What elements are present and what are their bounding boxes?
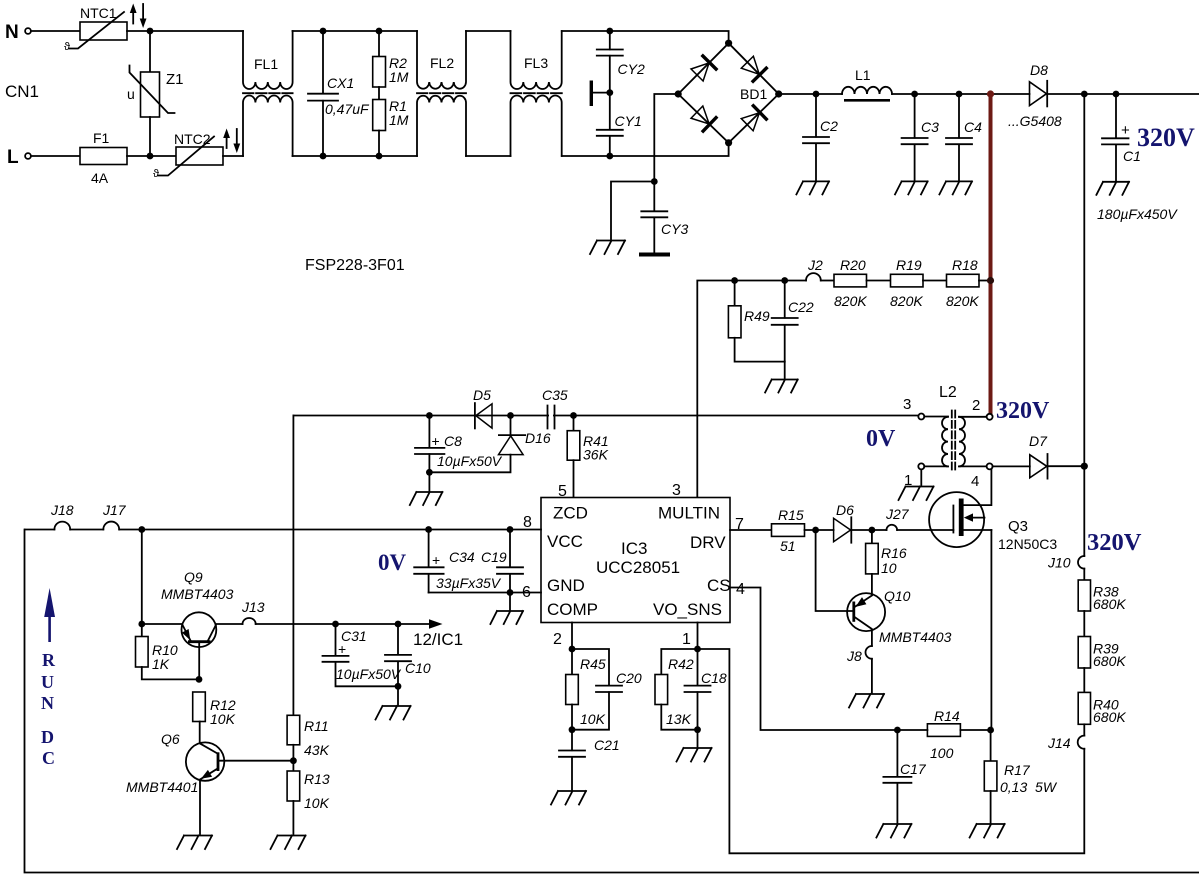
svg-text:C21: C21: [594, 737, 620, 753]
node CX1 top: [320, 28, 327, 35]
svg-text:CY2: CY2: [618, 61, 645, 77]
capacitor C19: [481, 530, 523, 593]
wire C10 bottom to ground: [397, 686, 399, 704]
jumper J14: [1078, 736, 1085, 749]
svg-text:FL3: FL3: [524, 55, 548, 71]
resistor R15 51: [772, 507, 834, 554]
resistor R2 1M: [373, 31, 409, 87]
wire J2 to R20: [821, 280, 834, 282]
svg-text:1M: 1M: [389, 69, 409, 85]
node CY1/CY2 mid junction: [606, 89, 613, 96]
ground R17: [970, 824, 1005, 838]
svg-text:D: D: [41, 727, 54, 747]
capacitor C1 180uFx450V: [1097, 94, 1178, 222]
svg-text:3: 3: [672, 482, 681, 499]
svg-text:NTC1: NTC1: [80, 5, 117, 21]
wire Q3 source down to R14 node: [990, 530, 992, 730]
capacitor CY1: [597, 93, 642, 156]
diode D6: [834, 502, 855, 543]
svg-text:GND: GND: [547, 576, 585, 595]
svg-text:0V: 0V: [378, 550, 407, 575]
capacitor C22: [772, 281, 814, 379]
node R45 bottom: [569, 726, 576, 733]
svg-text:u: u: [127, 86, 135, 102]
ground C8: [410, 492, 443, 505]
svg-text:COMP: COMP: [547, 600, 598, 619]
svg-text:680K: 680K: [1093, 596, 1126, 612]
svg-text:1K: 1K: [152, 656, 170, 672]
svg-text:DRV: DRV: [690, 533, 726, 552]
node R41 top: [570, 412, 577, 419]
ground (earth) left of CY3: [590, 241, 625, 255]
svg-text:4: 4: [736, 581, 745, 598]
node CY2 top: [606, 28, 613, 35]
ground R13: [271, 836, 306, 850]
svg-text:VO_SNS: VO_SNS: [653, 600, 722, 619]
svg-text:680K: 680K: [1093, 653, 1126, 669]
svg-text:R11: R11: [304, 718, 329, 734]
wire L rail FL2-FL3: [466, 155, 511, 157]
svg-text:10µFx50V: 10µFx50V: [437, 453, 503, 469]
svg-text:Q6: Q6: [161, 731, 180, 747]
node pin 2: [569, 646, 576, 653]
node GND junction: [507, 589, 514, 596]
svg-text:36K: 36K: [583, 447, 609, 463]
node D7/HV junction: [1081, 463, 1088, 470]
wire J8 to ground: [871, 659, 873, 693]
node R1 bottom: [376, 153, 383, 160]
svg-text:C17: C17: [900, 761, 927, 777]
svg-text:N: N: [41, 693, 54, 713]
svg-text:L: L: [7, 147, 19, 168]
node L-Z1 junction: [147, 153, 154, 160]
svg-text:L1: L1: [855, 67, 871, 83]
transistor Q3 12N50C3 (MOSFET): [929, 469, 1057, 552]
common-mode choke FL2: [417, 31, 466, 156]
node R49 top: [731, 277, 738, 284]
node C10 top: [395, 621, 402, 628]
net arrow RUN DC: [41, 588, 56, 768]
inductor L1: [842, 67, 892, 100]
svg-text:MULTIN: MULTIN: [658, 504, 720, 523]
core: [952, 411, 955, 472]
node Q9 base / R12: [196, 676, 203, 683]
wire Z1 to L line: [149, 117, 151, 156]
svg-text:CY1: CY1: [615, 113, 642, 129]
node C34 top: [425, 526, 432, 533]
resistor R17 0,13 5W: [984, 730, 1058, 823]
resistor R1 1M: [373, 87, 409, 156]
svg-text:43K: 43K: [304, 742, 330, 758]
node R14 right / Q3 source / R17: [987, 727, 994, 734]
wire GND junction to ground: [509, 593, 511, 610]
node D6/R16 junction: [869, 527, 876, 534]
wire L2 pin1 to ground: [920, 469, 922, 485]
arrow up (NTC2): [226, 136, 228, 148]
svg-text:320V: 320V: [996, 398, 1050, 424]
svg-text:UCC28051: UCC28051: [596, 558, 680, 577]
svg-text:R14: R14: [934, 708, 960, 724]
transistor Q9 MMBT4403: [142, 569, 243, 679]
svg-text:N: N: [5, 22, 19, 43]
wire HV node down to J10: [1083, 466, 1085, 556]
svg-text:1M: 1M: [389, 112, 409, 128]
wire D6 to J27: [851, 529, 886, 531]
resistor R40 680K: [1078, 692, 1126, 735]
resistor R42 13K: [655, 649, 698, 730]
svg-text:820K: 820K: [834, 293, 867, 309]
svg-text:C8: C8: [444, 433, 462, 449]
svg-text:R42: R42: [668, 656, 694, 672]
svg-text:MMBT4401: MMBT4401: [126, 779, 198, 795]
transistor Q6 MMBT4401: [126, 722, 293, 835]
wire R15 node down to Q10 base: [816, 530, 854, 611]
svg-text:R20: R20: [840, 257, 866, 273]
resistor R39 680K: [1078, 637, 1126, 693]
node HV red wire top: [987, 90, 994, 97]
svg-text:3: 3: [903, 396, 911, 413]
node C2 top: [813, 91, 820, 98]
wire left border + bottom return: [25, 530, 1199, 873]
pin 4 lead: [959, 465, 987, 467]
op-amp U IC3 UCC28051 body: [541, 498, 731, 623]
ground C3: [895, 181, 928, 194]
resistor R13 10K: [287, 761, 330, 834]
svg-text:J2: J2: [807, 257, 823, 273]
wire pin 1 stem: [697, 623, 699, 650]
wire N rail FL1 to R2: [293, 30, 418, 32]
svg-text:320V: 320V: [1137, 123, 1195, 152]
resistor R45 10K: [566, 649, 606, 730]
ground C21: [551, 791, 586, 805]
svg-text:33µFx35V: 33µFx35V: [436, 575, 502, 591]
earth tab between CY2/CY1: [592, 92, 607, 94]
svg-text:D6: D6: [836, 502, 854, 518]
wire J13 to 12/IC1 arrow: [256, 623, 430, 625]
ground C2: [796, 181, 829, 194]
capacitor C10: [385, 624, 431, 686]
svg-text:R45: R45: [580, 656, 606, 672]
thermistor NTC1: [64, 5, 127, 53]
wire J18-J17: [70, 529, 103, 531]
wire L rail FL1 to FL2: [293, 155, 418, 157]
svg-text:J14: J14: [1047, 735, 1071, 751]
jumper J18: [54, 522, 70, 530]
svg-text:+: +: [338, 641, 346, 657]
arrow down (NTC1): [142, 4, 144, 19]
ground C10: [376, 706, 411, 720]
wire GND pin 6 line: [429, 592, 541, 594]
svg-text:10µFx50V: 10µFx50V: [336, 666, 402, 682]
svg-text:12N50C3: 12N50C3: [998, 536, 1057, 552]
svg-text:NTC2: NTC2: [174, 131, 211, 147]
svg-text:ϑ: ϑ: [153, 168, 159, 180]
svg-text:C22: C22: [788, 299, 814, 315]
resistor R20 820K: [834, 257, 891, 309]
wire L1 to D8: [892, 93, 1030, 95]
wire N terminal to NTC1: [31, 30, 80, 32]
svg-text:U: U: [41, 672, 54, 692]
svg-text:C19: C19: [481, 549, 507, 565]
HV red wire: [989, 94, 993, 414]
wire NTC1 to FL1: [127, 30, 243, 32]
resistor R12 10K: [193, 692, 236, 727]
node CX1 bottom: [320, 153, 327, 160]
capacitor C20: [572, 649, 642, 730]
svg-text:R19: R19: [896, 257, 922, 273]
capacitor C2: [803, 94, 838, 180]
svg-text:8: 8: [523, 514, 532, 531]
resistor R49: [728, 281, 784, 362]
node R15/D6/Q10-base: [812, 527, 819, 534]
svg-text:BD1: BD1: [740, 86, 767, 102]
jumper J17: [103, 522, 119, 530]
svg-text:C4: C4: [964, 119, 982, 135]
node C19 top: [507, 526, 514, 533]
wire BD1 right vertex to L1: [779, 93, 842, 95]
svg-text:C20: C20: [616, 670, 642, 686]
node Q6 base / R11 / R13: [290, 757, 297, 764]
node HV vertical top: [1081, 91, 1088, 98]
node R18 to HV red wire: [987, 277, 994, 284]
ground C17: [876, 824, 911, 838]
svg-text:R: R: [42, 650, 56, 670]
svg-text:ϑ: ϑ: [64, 41, 70, 53]
svg-text:R13: R13: [304, 771, 330, 787]
pin 3 lead: [924, 416, 948, 418]
svg-text:J10: J10: [1047, 555, 1071, 571]
capacitor C35: [542, 387, 568, 429]
svg-text:MMBT4403: MMBT4403: [879, 629, 952, 645]
net arrow 12/IC1: [429, 619, 443, 629]
node pin 1: [694, 646, 701, 653]
capacitor C3: [902, 94, 940, 180]
pin 2 lead: [959, 416, 987, 418]
svg-text:0,13 5W: 0,13 5W: [1000, 779, 1058, 795]
thermistor NTC2: [153, 131, 223, 180]
zener D16: [429, 416, 550, 473]
wire J17 to IC pin 8: [119, 529, 541, 531]
svg-text:FL1: FL1: [254, 56, 278, 72]
diode D5: [473, 387, 492, 428]
jumper J10: [1078, 556, 1084, 569]
svg-text:D5: D5: [473, 387, 491, 403]
svg-text:R15: R15: [778, 507, 804, 523]
ground Q10: [849, 694, 884, 708]
wire MULTIN riser and J2 line: [697, 281, 806, 498]
node Q9 emitter: [138, 621, 145, 628]
svg-text:Q9: Q9: [184, 569, 203, 585]
jumper J8: [866, 646, 872, 659]
svg-text:R18: R18: [952, 257, 978, 273]
node CY1 bottom: [606, 153, 613, 160]
wire VO_SNS to bottom route: [698, 649, 1085, 853]
node C1 top: [1113, 91, 1120, 98]
node R2 top: [376, 28, 383, 35]
svg-text:C10: C10: [405, 660, 431, 676]
capacitor C18: [685, 649, 727, 730]
wire L terminal to F1: [31, 155, 80, 157]
resistor R18 820K: [946, 257, 991, 309]
svg-text:F1: F1: [93, 130, 110, 146]
arrow up (NTC1): [132, 11, 134, 24]
capacitor CX1 0,47uF: [308, 31, 370, 156]
resistor R16 10: [866, 530, 907, 595]
svg-text:100: 100: [930, 745, 954, 761]
jumper J2: [806, 273, 821, 280]
resistor R10 1K: [136, 624, 200, 679]
node N-Z1 junction: [147, 28, 154, 35]
svg-text:Q10: Q10: [884, 588, 911, 604]
resistor R14 100: [897, 708, 991, 761]
resistor R38 680K: [1078, 569, 1126, 637]
svg-text:R16: R16: [881, 545, 907, 561]
wire VCC rail with jumpers: [25, 529, 55, 531]
wire N rail FL3 to BD1 top: [562, 31, 729, 43]
bridge rectifier BD1: [675, 40, 783, 147]
common-mode choke FL3: [511, 31, 562, 156]
svg-text:13K: 13K: [666, 711, 692, 727]
svg-text:R17: R17: [1004, 762, 1031, 778]
node C31 top: [332, 621, 339, 628]
wire J27 to Q3 gate: [897, 529, 953, 531]
svg-text:D16: D16: [525, 430, 551, 446]
svg-text:CS: CS: [707, 576, 731, 595]
svg-text:+: +: [1121, 122, 1130, 139]
wire pin 7 to R15: [730, 529, 772, 531]
svg-text:J18: J18: [50, 502, 74, 518]
svg-text:+: +: [432, 552, 440, 568]
svg-text:J17: J17: [102, 502, 127, 518]
svg-text:FL2: FL2: [430, 55, 454, 71]
jumper J27: [887, 525, 898, 530]
svg-text:820K: 820K: [890, 293, 923, 309]
svg-text:IC3: IC3: [621, 539, 647, 558]
svg-text:10K: 10K: [304, 795, 330, 811]
svg-text:4: 4: [971, 473, 979, 490]
wire junction down to Z1: [149, 31, 151, 72]
svg-text:180µFx450V: 180µFx450V: [1097, 206, 1178, 222]
svg-text:ZCD: ZCD: [553, 504, 588, 523]
wire CY3 node to earth: [611, 182, 654, 240]
node R42/C18 bottom: [694, 726, 701, 733]
capacitor CY2: [597, 31, 645, 93]
node Q9 emitter feed: [138, 526, 145, 533]
svg-text:CN1: CN1: [5, 82, 39, 101]
svg-text:CX1: CX1: [327, 75, 354, 91]
svg-text:L2: L2: [939, 384, 957, 401]
wire F1 to NTC2: [127, 155, 176, 157]
node C10 bottom: [395, 683, 402, 690]
node C22 top: [781, 277, 788, 284]
svg-text:Z1: Z1: [166, 71, 184, 88]
svg-text:R49: R49: [744, 308, 770, 324]
svg-text:680K: 680K: [1093, 709, 1126, 725]
svg-text:CY3: CY3: [661, 221, 688, 237]
svg-text:320V: 320V: [1087, 529, 1142, 556]
secondary winding: [959, 417, 965, 467]
svg-text:C35: C35: [542, 387, 568, 403]
svg-text:C2: C2: [820, 118, 838, 134]
wire D7 to HV vertical: [1048, 465, 1085, 467]
wire ZCD line corner down to R11: [292, 416, 294, 716]
capacitor C4: [946, 94, 982, 180]
diode D7: [1029, 433, 1048, 479]
svg-text:FSP228-3F01: FSP228-3F01: [305, 257, 405, 274]
resistor R41 36K: [567, 416, 608, 498]
node D16 top: [507, 412, 514, 419]
transistor Q10 MMBT4403: [847, 588, 951, 646]
wire to ground: [697, 730, 699, 747]
ground C4: [939, 181, 972, 194]
resistor R19 820K: [890, 257, 947, 309]
svg-text:820K: 820K: [946, 293, 979, 309]
svg-text:10: 10: [881, 560, 897, 576]
svg-text:10K: 10K: [580, 711, 606, 727]
node C8 top: [426, 412, 433, 419]
ground C1: [1096, 182, 1129, 195]
diode D8 ...G5408: [1008, 62, 1062, 129]
svg-text:5: 5: [558, 483, 567, 500]
pin 1 lead: [924, 465, 948, 467]
wire L2 pin4 to D7: [993, 465, 1030, 467]
svg-text:2: 2: [972, 397, 980, 414]
wire pin 2 stem: [571, 623, 573, 650]
svg-text:...G5408: ...G5408: [1008, 113, 1062, 129]
wire main ZCD line: [293, 415, 918, 417]
wire VCC node down to Q9 emitter: [141, 530, 143, 625]
svg-text:4A: 4A: [91, 170, 109, 186]
node C3 top: [911, 91, 918, 98]
ground pin 6: [490, 611, 523, 624]
capacitor C8 10uFx50V: [415, 416, 503, 473]
svg-text:2: 2: [553, 631, 562, 648]
wire HV vertical (D8 node down to D7 node): [1083, 94, 1085, 466]
wire NTC2 to FL1: [223, 155, 243, 157]
node R14 left / C17: [894, 727, 901, 734]
resistor R11 43K: [287, 715, 329, 760]
svg-text:10K: 10K: [210, 711, 236, 727]
wire CS pin 4 route: [730, 588, 897, 731]
svg-text:C18: C18: [701, 670, 727, 686]
node CY3 junction: [651, 178, 658, 185]
node C8 bottom: [426, 469, 433, 476]
wire BD1 left vertex to CY3 node: [654, 94, 678, 182]
capacitor C21: [559, 730, 620, 790]
arrow down (NTC2): [236, 129, 238, 144]
transformer L2: [903, 384, 993, 490]
primary winding: [942, 417, 948, 467]
svg-text:D8: D8: [1030, 62, 1048, 78]
svg-text:J27: J27: [885, 506, 910, 522]
svg-text:J13: J13: [241, 599, 265, 615]
svg-text:12/IC1: 12/IC1: [413, 630, 463, 649]
svg-text:C34: C34: [449, 549, 475, 565]
common-mode choke FL1: [243, 31, 293, 156]
ground C18: [677, 748, 712, 762]
svg-text:Q3: Q3: [1008, 518, 1028, 535]
fuse F1 4A: [80, 130, 127, 186]
svg-text:C: C: [42, 748, 55, 768]
capacitor CY3: [639, 182, 688, 255]
capacitor C31 10uFx50V: [323, 624, 402, 686]
svg-text:51: 51: [780, 538, 796, 554]
svg-text:1: 1: [682, 631, 691, 648]
ground L2 pin1: [899, 487, 934, 501]
varistor Z1: [127, 66, 184, 118]
svg-text:0V: 0V: [866, 426, 896, 452]
svg-text:MMBT4403: MMBT4403: [161, 586, 234, 602]
